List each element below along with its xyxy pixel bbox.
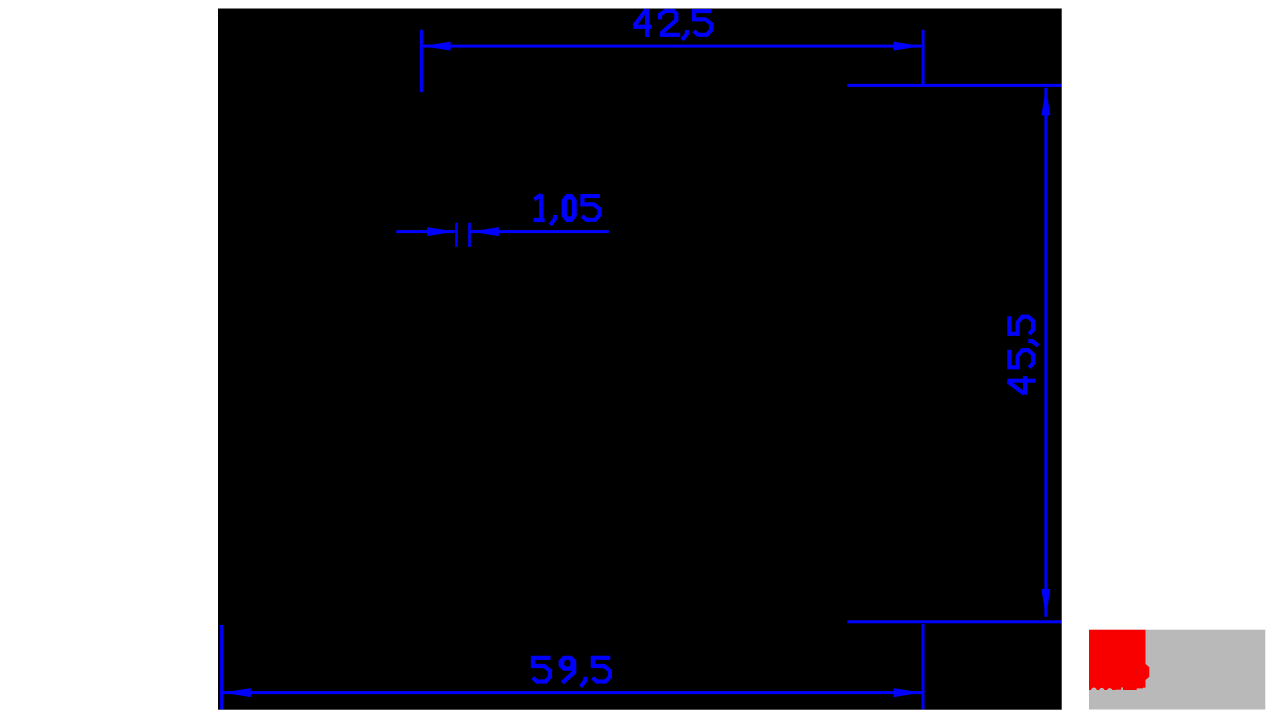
glyph 5 [694, 11, 712, 35]
dimension 42,5 left arrowhead [423, 42, 451, 51]
dimension 59,5 right arrowhead [894, 688, 922, 697]
dimension 59,5 line [223, 691, 922, 694]
text 45,5 (right dimension, rotated 90° CCW) [1007, 316, 1038, 394]
dimension 1,05 left arrowhead (points right) [427, 227, 455, 236]
logo gray letter notches [1091, 687, 1123, 693]
dimension 59,5 left arrowhead [223, 688, 251, 697]
glyph 9 tail [562, 665, 574, 683]
logo gray background plate [1089, 630, 1265, 710]
glyph comma [550, 215, 555, 225]
glyph comma [581, 677, 586, 687]
dimension 45,5 top arrowhead (points up) [1041, 88, 1050, 116]
dimension 45,5 line (vertical) [1044, 88, 1047, 617]
text 59,5 (bottom dimension) [533, 656, 611, 687]
dimension 45,5 top extension line [847, 84, 1061, 87]
dimension 1,05 left line [396, 230, 455, 233]
glyph 0 [562, 194, 577, 222]
glyph comma [1028, 341, 1038, 346]
text 42,5 (top dimension) [633, 9, 711, 40]
glyph 1 [534, 194, 545, 220]
dimension 42,5 line [423, 45, 921, 48]
dimension 59,5 right extension line [922, 624, 925, 709]
CAD stroke-font dimension texts [533, 9, 1039, 687]
dimension 42,5 right arrowhead [893, 42, 921, 51]
glyph 4 [633, 9, 652, 37]
glyph comma [682, 30, 687, 40]
glyph 2 [660, 11, 680, 35]
glyph 5 [593, 658, 611, 682]
dimension 1,05 right tick [468, 223, 471, 247]
logo red square mark with wordmark bottom edge [1089, 630, 1149, 690]
dimension 45,5 bottom extension line [847, 620, 1061, 623]
glyph 9 loop [559, 656, 577, 671]
dimension 42,5 left extension line [420, 30, 423, 92]
black drawing canvas [218, 9, 1062, 710]
dimension 42,5 right extension line [922, 30, 925, 87]
glyph 4 [1007, 376, 1035, 395]
glyph 5 [1009, 350, 1033, 368]
text 1,05 (small dimension) [534, 194, 600, 225]
glyph 5 [533, 658, 551, 682]
dimension 1,05 left tick [455, 223, 458, 247]
dimension 1,05 right arrowhead (points left) [471, 227, 499, 236]
glyph 5 [582, 196, 600, 220]
dimension 1,05 right line [471, 230, 609, 233]
glyph 5 [1009, 316, 1033, 334]
dimension 45,5 bottom arrowhead (points down) [1041, 589, 1050, 617]
dimension 59,5 left extension line [220, 625, 223, 709]
